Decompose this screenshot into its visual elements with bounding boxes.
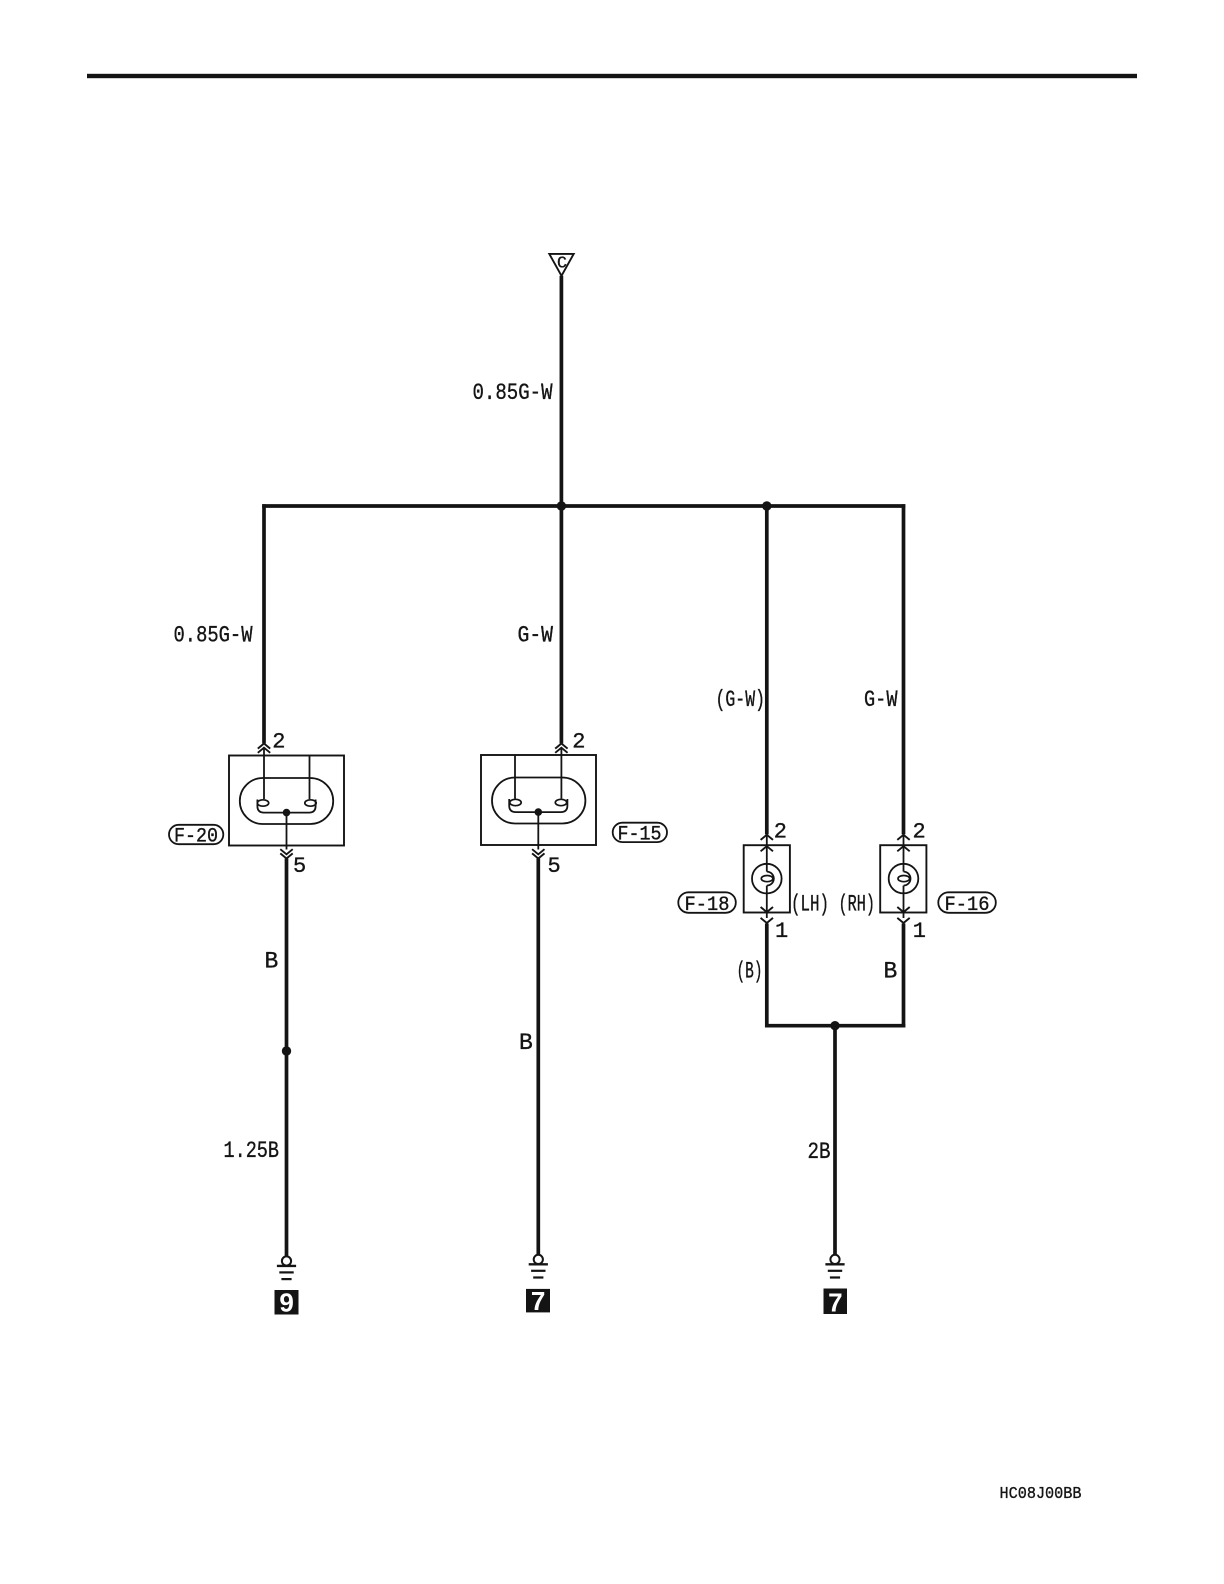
filament loop right (F-20) [305, 800, 316, 806]
svg-text:C: C [557, 254, 567, 273]
filament loop right (F-15) [555, 799, 566, 805]
svg-text:F-15: F-15 [618, 824, 662, 847]
bulb pigtail arc (F-16) [904, 872, 911, 886]
bulb filament loop (F-16) [898, 876, 910, 882]
ground tag 7 (right) [824, 1289, 848, 1315]
ground tag 9 [275, 1290, 299, 1315]
connector tag F-16 [938, 892, 996, 913]
page top rule [87, 74, 1137, 78]
connector F-15 pin 2 chevrons [555, 744, 567, 753]
wire: drop to F-18 [765, 506, 769, 834]
svg-text:F-18: F-18 [685, 894, 730, 917]
ground symbol (right) [825, 1255, 844, 1278]
svg-text:1: 1 [913, 919, 926, 944]
wire: middle drop to F-15 [560, 506, 564, 743]
svg-text:HC08J00BB: HC08J00BB [1000, 1484, 1082, 1503]
wire: F-16 pin 1 down [902, 924, 906, 1028]
svg-text:2: 2 [913, 820, 926, 845]
svg-text:9: 9 [279, 1288, 293, 1318]
bulb glass circle (F-16) [889, 864, 919, 894]
ground symbol (left) [277, 1256, 296, 1279]
bulb lead bottom (F-16) [903, 886, 905, 918]
lead to pin 5 (F-20) [286, 813, 288, 850]
filament loop left (F-15) [510, 799, 521, 805]
svg-text:1: 1 [775, 919, 788, 944]
svg-text:G-W: G-W [518, 623, 554, 649]
connector F-18 pin 2 chevrons [761, 835, 773, 852]
front fog lamp connector box F-15 [481, 755, 596, 845]
junction dot on left ground wire [282, 1046, 291, 1055]
bulb lead top (F-16) [903, 835, 905, 872]
svg-text:(G-W): (G-W) [716, 687, 766, 713]
svg-text:G-W: G-W [864, 687, 898, 713]
wire: F-20 pin 5 to ground [285, 859, 289, 1257]
junction dot (bus / C feed) [557, 501, 566, 510]
svg-text:0.85G-W: 0.85G-W [174, 623, 253, 649]
bulb lead top (F-18) [766, 835, 768, 872]
connector tag F-20 [169, 825, 223, 844]
lamp lead from pin 2 (F-20) [263, 748, 265, 799]
ground symbol (middle) [529, 1255, 548, 1278]
junction dot (bus / F-18 drop) [762, 501, 771, 510]
svg-text:2: 2 [272, 729, 285, 754]
svg-text:(B): (B) [737, 959, 763, 985]
connector symbol C (triangle) [549, 254, 573, 276]
svg-text:7: 7 [828, 1287, 842, 1317]
connector F-16 pin 1 chevrons [897, 907, 909, 923]
lamp lead right (F-20) [309, 756, 311, 800]
svg-text:2B: 2B [808, 1139, 831, 1165]
bulb filament loop (F-18) [761, 876, 773, 882]
connector tag F-15 [613, 823, 667, 842]
svg-text:B: B [265, 949, 279, 975]
connector F-16 pin 2 chevrons [897, 835, 909, 852]
junction dot (joining bar) [830, 1021, 839, 1030]
wire: right drop to F-16 [902, 504, 906, 834]
filament channel (F-20) [257, 800, 315, 813]
svg-text:0.85G-W: 0.85G-W [473, 380, 553, 406]
filament tap dot (F-20) [283, 809, 291, 817]
filament loop left (F-20) [257, 800, 268, 806]
front fog bulb connector box F-16 [880, 845, 926, 912]
svg-text:(RH): (RH) [839, 892, 876, 918]
lamp lead from pin 2 (F-15) [560, 748, 562, 799]
rear fog lamp connector box F-20 [229, 756, 344, 846]
connector F-20 pin 2 chevrons [258, 744, 270, 753]
wire: F-15 pin 5 to ground [536, 859, 540, 1255]
connector F-15 pin 5 chevrons [532, 849, 544, 858]
bulb lead bottom (F-18) [766, 886, 768, 918]
wire: left drop to F-20 [262, 504, 266, 743]
filament tap dot (F-15) [535, 808, 543, 816]
connector F-20 pin 5 chevrons [280, 849, 292, 858]
lamp lead left (F-15) [514, 755, 516, 799]
svg-text:2: 2 [774, 820, 787, 845]
filament channel (F-15) [509, 799, 567, 812]
rear fog bulb connector box F-18 [744, 845, 790, 912]
bulb pigtail arc (F-18) [767, 872, 774, 886]
svg-text:B: B [519, 1030, 533, 1056]
bulb glass circle (F-18) [752, 864, 782, 894]
wire: join to ground [833, 1026, 837, 1255]
svg-text:F-16: F-16 [945, 894, 990, 917]
svg-text:F-20: F-20 [174, 826, 218, 849]
wire: from C down to bus [560, 276, 564, 506]
svg-text:(LH): (LH) [791, 892, 829, 918]
svg-text:5: 5 [293, 854, 306, 879]
connector F-18 pin 1 chevrons [761, 907, 773, 923]
svg-text:7: 7 [531, 1286, 545, 1316]
wire: joining bar [765, 1024, 905, 1028]
svg-text:2: 2 [572, 729, 585, 754]
wire: horizontal bus [262, 504, 905, 508]
lamp glass envelope (F-15) [492, 778, 585, 824]
wire: F-18 pin 1 down [765, 924, 769, 1028]
connector tag F-18 [678, 892, 736, 913]
svg-text:1.25B: 1.25B [224, 1138, 280, 1164]
lamp glass envelope (F-20) [240, 778, 333, 824]
ground tag 7 (middle) [526, 1289, 550, 1313]
svg-text:5: 5 [548, 854, 561, 879]
lead to pin 5 (F-15) [537, 812, 539, 849]
svg-text:B: B [884, 959, 898, 985]
